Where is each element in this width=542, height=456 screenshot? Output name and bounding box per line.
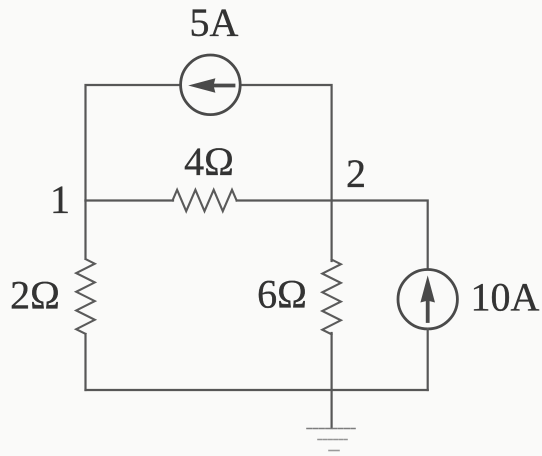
wire middle branch upper xyxy=(331,201,333,262)
wire top-right segment xyxy=(241,85,332,201)
current source I2 10A xyxy=(398,270,457,329)
wire right branch lower xyxy=(427,329,429,390)
wire left branch lower xyxy=(84,334,86,390)
wire ground stem xyxy=(331,390,333,428)
wire node2 to right branch xyxy=(332,201,428,270)
svg-text:4Ω: 4Ω xyxy=(184,139,234,184)
svg-text:6Ω: 6Ω xyxy=(257,272,307,317)
wire top-left segment xyxy=(86,85,181,201)
svg-text:5A: 5A xyxy=(190,0,239,45)
wire middle-right xyxy=(237,199,332,201)
svg-text:2: 2 xyxy=(346,151,366,196)
ground xyxy=(307,429,355,451)
resistor R 4ohm xyxy=(173,190,237,211)
wire middle branch lower xyxy=(331,333,333,390)
wire bottom xyxy=(86,389,428,391)
svg-text:1: 1 xyxy=(50,177,70,222)
wire middle-left xyxy=(86,199,174,201)
resistor R 2ohm xyxy=(76,259,95,334)
wire left branch upper xyxy=(84,201,86,259)
svg-text:2Ω: 2Ω xyxy=(10,273,60,318)
resistor R 6ohm xyxy=(322,260,341,335)
current source I1 5A xyxy=(181,55,241,115)
svg-text:10A: 10A xyxy=(471,275,540,320)
